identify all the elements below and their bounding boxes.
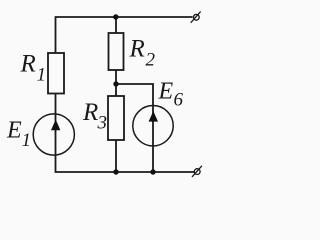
node junction top bbox=[113, 14, 118, 19]
svg-text:1: 1 bbox=[22, 130, 32, 151]
svg-text:R: R bbox=[129, 36, 145, 63]
svg-text:6: 6 bbox=[174, 90, 184, 111]
source E1 arrow bbox=[51, 120, 60, 131]
terminal top right bbox=[191, 12, 201, 23]
svg-text:R: R bbox=[82, 99, 98, 126]
node junction bottom right bbox=[150, 169, 155, 174]
svg-text:E: E bbox=[6, 118, 22, 144]
label R2 bbox=[129, 36, 156, 71]
resistor R2 bbox=[109, 33, 124, 70]
source E1 bbox=[33, 114, 74, 155]
svg-text:E: E bbox=[158, 79, 174, 105]
source E6 arrow bbox=[149, 111, 158, 122]
wire left branch lower bbox=[56, 94, 195, 173]
node junction middle bbox=[113, 81, 118, 86]
source E6 bbox=[133, 106, 173, 146]
wire middle branch lower bbox=[115, 140, 117, 172]
node junction bottom left bbox=[113, 169, 118, 174]
label R3 bbox=[82, 99, 107, 134]
label E1 bbox=[6, 118, 31, 152]
wire top bus bbox=[56, 17, 193, 53]
svg-text:2: 2 bbox=[146, 50, 156, 71]
resistor R3 bbox=[108, 96, 124, 140]
label R1 bbox=[20, 51, 47, 86]
svg-text:3: 3 bbox=[97, 113, 108, 134]
terminal bottom right bbox=[192, 166, 202, 177]
wire middle branch upper bbox=[115, 17, 117, 33]
svg-text:1: 1 bbox=[37, 65, 47, 86]
label E6 bbox=[158, 79, 184, 111]
resistor R1 bbox=[48, 53, 64, 94]
wire middle branch between R2 and R3 bbox=[115, 70, 117, 96]
wire E6 branch bbox=[116, 84, 153, 172]
svg-text:R: R bbox=[20, 51, 36, 78]
